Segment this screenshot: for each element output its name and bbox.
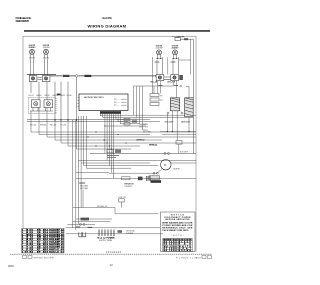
infinite switch left 1 — [29, 75, 37, 81]
svg-text:SCREW: SCREW — [126, 233, 133, 235]
node drop wire — [76, 77, 78, 120]
svg-text:TOD 60T11: TOD 60T11 — [124, 186, 133, 188]
lower elbow cluster — [67, 218, 112, 226]
wire LR unit to switch — [45, 59, 48, 76]
stack drop wires — [134, 86, 149, 130]
wire P11 drop — [179, 39, 191, 74]
infinite switch right 2 — [171, 75, 179, 81]
svg-text:DOOR LATCH: DOOR LATCH — [139, 123, 149, 126]
svg-text:BEFORE SERVICING: BEFORE SERVICING — [166, 219, 190, 221]
latch switch text — [139, 123, 152, 133]
note box — [161, 212, 196, 252]
svg-text:BK-18: BK-18 — [168, 82, 176, 84]
convection motor — [161, 160, 196, 171]
svg-text:MOTOR: MOTOR — [174, 168, 181, 170]
EOC left pin ticks — [77, 98, 79, 107]
svg-text:1200W: 1200W — [156, 48, 163, 50]
surface unit labels LF — [29, 45, 37, 49]
EOC connector comb — [100, 111, 121, 116]
left wire elbows — [31, 108, 196, 149]
surface unit LF — [30, 49, 35, 58]
diagram frame — [23, 36, 196, 251]
broil element — [170, 98, 179, 111]
bottom legend right — [176, 256, 212, 260]
svg-text:BK-30: BK-30 — [30, 124, 37, 126]
stack feed wires — [134, 57, 177, 94]
fuse labels — [124, 183, 135, 188]
warmer switch stub — [164, 75, 183, 80]
oven lamp box dashed — [29, 98, 57, 114]
element terminals — [167, 112, 183, 114]
connector stack right of EOC — [150, 94, 163, 106]
svg-text:P9 CONN: P9 CONN — [143, 131, 152, 133]
svg-text:M: M — [164, 164, 166, 167]
right horizontals under elements — [160, 132, 196, 135]
svg-text:10: 10 — [22, 251, 26, 253]
bottom legend left — [23, 256, 54, 260]
EOC right pin labels — [114, 99, 119, 107]
motor feed node — [90, 152, 196, 155]
svg-text:GROUND: GROUND — [80, 188, 89, 190]
svg-text:BK-10: BK-10 — [37, 95, 43, 97]
element labels — [165, 121, 191, 124]
mid junction dots — [87, 131, 126, 146]
oven lamp 1 — [32, 100, 41, 108]
relay cluster boxes — [124, 118, 138, 125]
header rule — [24, 30, 210, 32]
svg-text:BAKE 2500W: BAKE 2500W — [181, 121, 190, 124]
connector P14 box — [119, 197, 127, 208]
bottom rule — [10, 253, 212, 255]
surface unit RR — [157, 50, 162, 59]
hatched bar — [151, 180, 162, 183]
wire color labels right units — [155, 61, 176, 63]
surface unit LR — [44, 49, 49, 58]
wire mid bus with node — [50, 75, 157, 77]
svg-text:CLK 52: CLK 52 — [54, 251, 64, 253]
EOC pin dashes — [121, 99, 127, 105]
svg-text:P5 —: P5 — — [114, 99, 119, 101]
svg-text:RD-12: RD-12 — [45, 95, 51, 97]
svg-text:P = PLUG J = JACK: P = PLUG J = JACK — [176, 256, 202, 259]
svg-text:P7 —: P7 — — [114, 105, 119, 107]
supply block mid — [98, 230, 123, 243]
connector P11 plug — [184, 38, 193, 44]
bus label row — [30, 124, 67, 126]
svg-text:RD/WH-44: RD/WH-44 — [97, 206, 108, 208]
infinite switch right 1 — [156, 75, 164, 81]
wire blob label — [57, 94, 61, 96]
svg-text:RD-8: RD-8 — [29, 95, 35, 97]
svg-text:-NOTE-: -NOTE- — [172, 235, 184, 237]
fuse row — [76, 176, 196, 181]
note box paragraph — [162, 222, 193, 232]
wire LF unit to switch — [31, 59, 34, 76]
relay boxes mid — [107, 150, 121, 158]
oven lamp 2 — [44, 100, 53, 108]
bake element — [185, 98, 194, 117]
comb fan-out wires right — [101, 115, 197, 178]
svg-text:9802: 9802 — [8, 264, 14, 268]
EOC box — [79, 94, 128, 111]
wire right edge drop — [192, 44, 194, 153]
surface unit labels LR — [43, 45, 51, 49]
svg-text:2100/1300W: 2100/1300W — [172, 48, 179, 50]
wire RR unit to connector — [157, 57, 163, 75]
note box note — [172, 235, 184, 237]
svg-text:24C24142: 24C24142 — [106, 251, 122, 254]
connector P11 box — [175, 38, 184, 41]
wire label row left — [29, 95, 73, 97]
note box header text — [165, 214, 192, 221]
svg-text:GY-30: GY-30 — [67, 95, 73, 97]
svg-text:BR 18GA: BR 18GA — [164, 249, 178, 252]
switch drop wires — [31, 82, 68, 120]
motor spec box — [149, 176, 160, 180]
surface unit RF — [173, 50, 178, 59]
switch link bars — [38, 78, 42, 80]
vertical bundle — [73, 116, 109, 230]
svg-text:13: 13 — [110, 263, 114, 267]
publication number text — [16, 16, 32, 23]
svg-text:SWITCH: SWITCH — [139, 127, 149, 129]
comb junction dots — [104, 125, 114, 154]
supply terminals row — [66, 227, 164, 237]
svg-text:BK/RD-52: BK/RD-52 — [137, 139, 146, 141]
infinite switch left 2 — [42, 75, 50, 81]
wiring table — [22, 228, 64, 253]
junction dots right — [167, 131, 190, 132]
svg-text:1200W: 1200W — [43, 47, 50, 49]
wire inter-switch — [167, 58, 169, 75]
relay wire labels — [137, 139, 158, 146]
right vertical wires to elements — [177, 86, 190, 98]
svg-text:BK-14: BK-14 — [53, 95, 59, 97]
motor lead — [109, 169, 162, 174]
svg-text:P3: P3 — [160, 100, 163, 102]
svg-text:TN: TN — [27, 251, 32, 253]
surface unit labels RF — [172, 45, 180, 49]
svg-text:P2: P2 — [160, 95, 163, 97]
svg-text:BK/WH: BK/WH — [180, 152, 189, 154]
surface unit labels RR — [156, 45, 164, 49]
svg-text:GY-36: GY-36 — [60, 124, 67, 126]
mid lower wire — [73, 190, 158, 214]
svg-text:P6 —: P6 — — [114, 102, 119, 104]
svg-text:WH-32: WH-32 — [40, 124, 47, 126]
svg-text:RD-16: RD-16 — [151, 82, 158, 84]
right bus lines — [109, 161, 196, 169]
wire L1 bus left — [27, 74, 56, 76]
svg-text:P11 WARMER: P11 WARMER — [173, 35, 185, 38]
svg-text:WH/BK-54: WH/BK-54 — [149, 145, 158, 147]
lamp bottom ticks — [30, 108, 53, 111]
svg-text:TECH SHEET FOR INFO: TECH SHEET FOR INFO — [162, 230, 188, 232]
wire RF unit to connector — [173, 57, 179, 75]
P24 connector — [79, 183, 88, 190]
wire label row right — [151, 82, 176, 84]
connector dashes right — [159, 85, 183, 88]
svg-text:RD-34: RD-34 — [50, 124, 57, 126]
svg-text:5995409578: 5995409578 — [16, 19, 30, 23]
svg-text:P14 CN: P14 CN — [119, 197, 127, 199]
svg-text:BROWN: BROWN — [179, 250, 192, 252]
svg-text:WIRING DIAGRAM: WIRING DIAGRAM — [88, 24, 127, 29]
svg-text:K1 RY: K1 RY — [132, 119, 138, 121]
svg-text:GLEF378A: GLEF378A — [102, 16, 112, 20]
svg-text:PK: PK — [39, 251, 45, 253]
table text — [22, 228, 63, 253]
svg-text:WH/BK BK/WH: WH/BK BK/WH — [34, 257, 54, 259]
svg-text:SUPPLY TERM: SUPPLY TERM — [99, 240, 112, 242]
svg-text:2100/1300W: 2100/1300W — [29, 47, 36, 49]
long bus under EOC — [27, 119, 130, 121]
svg-text:18 GA: 18 GA — [45, 250, 53, 253]
ground text — [126, 230, 136, 234]
plug connector right — [176, 141, 182, 154]
lower bus line — [76, 172, 109, 174]
note table text — [164, 238, 192, 252]
note box table — [163, 238, 193, 251]
svg-text:ELECTRONIC OVEN CONTROL: ELECTRONIC OVEN CONTROL — [84, 97, 105, 99]
element drop wires — [167, 111, 189, 141]
